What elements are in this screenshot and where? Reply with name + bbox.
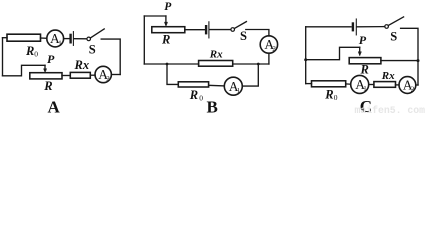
wire: rheostat R to Rx — [62, 75, 70, 77]
resistor Rx (C) box — [374, 82, 396, 88]
svg-text:Rx: Rx — [209, 49, 223, 61]
wire: R to battery (B) — [185, 29, 205, 31]
svg-text:0: 0 — [34, 50, 38, 59]
svg-text:R: R — [360, 63, 369, 77]
svg-text:P: P — [47, 52, 55, 66]
wire: A top-left horizontal (left vertical to R0) — [3, 37, 8, 39]
svg-text:1: 1 — [363, 85, 367, 93]
wire: A1 to Rx (C) — [369, 84, 374, 86]
rheostat R (C) box — [349, 58, 381, 64]
rheostat R (B) box — [152, 27, 185, 33]
svg-text:R: R — [161, 33, 170, 47]
svg-text:1: 1 — [58, 40, 62, 48]
switch S (C): pivot circle — [385, 25, 389, 29]
wire: A2 to right vertical (C) — [416, 84, 418, 86]
svg-text:P: P — [359, 33, 367, 47]
wire: B left vertical — [143, 16, 145, 64]
wire: battery to switch (C) — [357, 26, 385, 28]
wire: A1 to right riser up to Rx line (B) — [242, 64, 258, 86]
ammeter A1 — [47, 30, 64, 47]
resistor R0 (box) — [7, 34, 41, 41]
resistor Rx (B) box — [199, 61, 233, 67]
svg-text:R: R — [43, 79, 52, 93]
switch S (A): pivot circle — [87, 37, 91, 41]
wire: C left vertical — [305, 27, 307, 84]
node: junction right (B) — [257, 63, 260, 66]
battery (C): long thin plate — [355, 19, 357, 35]
svg-text:B: B — [207, 98, 218, 116]
battery (A): short thick plate — [69, 35, 71, 42]
wire: A2 down to Rx line (B) — [268, 53, 270, 64]
svg-text:Rx: Rx — [381, 70, 395, 82]
wire: Rx branch line (B) — [144, 63, 269, 65]
svg-text:2: 2 — [272, 45, 276, 53]
node: junction left (B) — [166, 63, 169, 66]
svg-text:Rx: Rx — [74, 58, 90, 72]
svg-text:P: P — [164, 1, 172, 13]
svg-text:S: S — [89, 43, 96, 57]
svg-text:2: 2 — [411, 86, 415, 94]
wire: right vertical to ammeter A2 — [112, 74, 121, 76]
svg-text:1: 1 — [237, 87, 241, 95]
battery (B): short thick plate — [205, 26, 207, 33]
ammeter A2 (B) — [260, 36, 277, 53]
svg-text:2: 2 — [106, 75, 110, 83]
wire: R0 to ammeter A1 — [41, 37, 47, 39]
node: junction on left vertical (C) — [304, 58, 307, 61]
svg-text:R: R — [189, 88, 198, 102]
battery (A): long thin plate — [72, 32, 74, 46]
switch S (C): blade — [388, 17, 403, 26]
svg-text:S: S — [390, 30, 397, 44]
resistor R0 (B) box — [178, 82, 208, 87]
wire: left vertical corner to R0 (C) — [306, 83, 312, 85]
wire: switch to top-right corner, right vertical (C) — [401, 28, 418, 85]
wire: step from left vertical to slider P (A) — [3, 65, 46, 76]
wire: battery to switch — [74, 38, 87, 40]
wire: A left vertical — [2, 38, 4, 76]
svg-text:0: 0 — [334, 93, 338, 102]
wire: C top horizontal left of battery — [306, 26, 351, 28]
switch S (A): blade — [90, 29, 104, 38]
wire: R0 to A1 (C) — [346, 83, 351, 85]
svg-text:A: A — [48, 98, 61, 116]
wire: switch to top-right corner down to A2 (B) — [246, 30, 269, 36]
switch S (B): blade — [234, 22, 246, 29]
wire: Rx to A2 (C) — [396, 84, 400, 86]
wire: Rx to A2 — [90, 74, 95, 76]
resistor R0 (C) box — [312, 81, 346, 87]
wire: battery to switch (B) — [210, 29, 231, 31]
ammeter A1 (B) — [224, 77, 242, 95]
ammeter A2 (A) — [95, 66, 111, 82]
battery (C): short thick plate — [352, 24, 354, 31]
wire: R0 to A1 (B) — [209, 84, 225, 87]
switch S (B): pivot circle — [231, 28, 235, 32]
wire: lower branch left drop and to R0 (B) — [167, 64, 178, 84]
resistor Rx (A) box — [70, 72, 90, 78]
wire: A1 to battery — [64, 38, 70, 40]
node: junction on right vertical (C) — [417, 59, 420, 62]
svg-text:R: R — [324, 88, 333, 102]
slider arrow P (C) — [359, 47, 361, 52]
ammeter A2 (C) — [399, 77, 416, 94]
slider arrow P (B) — [165, 16, 167, 22]
svg-text:R: R — [25, 44, 34, 58]
svg-text:0: 0 — [199, 94, 203, 103]
slider arrow P (A) — [44, 65, 46, 69]
svg-text:S: S — [240, 29, 247, 43]
battery (B): long thin plate — [208, 22, 210, 38]
wire: B top horizontal to slider — [144, 15, 166, 17]
rheostat R (A) box — [30, 73, 62, 79]
svg-text:maifen5. com: maifen5. com — [355, 105, 425, 115]
ammeter A1 (C) — [351, 75, 369, 93]
wire: switch to top-right corner and right vertical — [101, 39, 120, 74]
wire: R right end to right vertical (C) — [381, 60, 418, 62]
wire: step from left vertical to slider P (C) — [306, 47, 360, 59]
